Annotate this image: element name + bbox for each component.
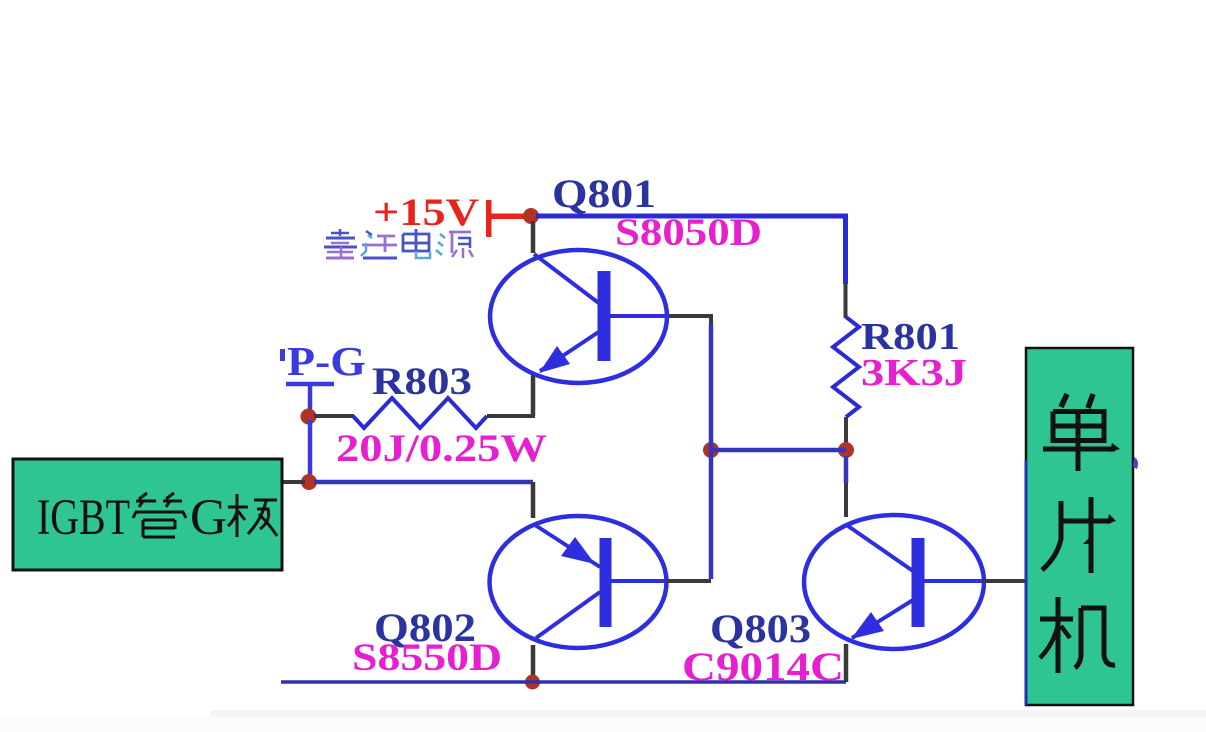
源 [436, 232, 473, 258]
node dot P-G [301, 409, 317, 425]
node dot IGBT [301, 474, 317, 490]
artifact blue tick right of MCU box [1133, 457, 1138, 469]
wire navy IGBT node to Q802 emitter [314, 480, 533, 485]
wire black R801 upper lead [844, 284, 848, 318]
近 [361, 231, 397, 258]
label 靠近电源 (drawn strokes) [324, 229, 473, 258]
Q803 emitter arrow [851, 612, 884, 639]
wire black Q802 base [666, 579, 711, 583]
node dot: +15V node [523, 208, 539, 224]
Q801 emitter arrow [539, 346, 570, 373]
wire black Q801 emitter down to R803 [531, 376, 536, 416]
transistor Q801 (S8050D NPN) [490, 250, 667, 383]
wire red from +15V to node [489, 214, 531, 220]
wire vertical bus x711 upper black part [709, 316, 713, 324]
svg-text:C9014C: C9014C [682, 644, 844, 689]
svg-text:G: G [190, 490, 227, 546]
wire black down into Q802 emitter [531, 482, 536, 518]
node dot bottom [525, 675, 540, 690]
wire blue top rail from node to R801 top [536, 216, 846, 284]
wire black R803 left lead [314, 414, 354, 418]
power tick bar [486, 200, 492, 237]
glyph 片 [1042, 497, 1111, 573]
wire black Q803 emitter down [844, 644, 849, 682]
svg-text:R803: R803 [372, 360, 472, 403]
wire bottom rail [281, 680, 846, 684]
node dot under R801 [838, 442, 854, 458]
wire black Q803 base to MCU box [982, 579, 1026, 583]
glyph 单 [1043, 394, 1115, 471]
transistor Q802 (S8550D PNP) [490, 516, 668, 648]
靠 [324, 229, 357, 258]
IGBT box [13, 459, 282, 570]
svg-text:20J/0.25W: 20J/0.25W [336, 427, 547, 470]
svg-text:+15V: +15V [373, 191, 479, 234]
wire black R803 right lead [487, 375, 533, 416]
wire black Q802 collector down [531, 645, 536, 682]
glyph 极 [228, 494, 277, 537]
test point tee [286, 384, 334, 416]
MCU box left border blue lower [1025, 460, 1028, 705]
svg-text:IGBT: IGBT [37, 490, 130, 546]
transistor Q803 (C9014C NPN) [804, 515, 984, 649]
wire vertical bus x711 from Q801 base to Q802 base [709, 324, 714, 579]
wire blue below R801 node [844, 456, 849, 483]
glyph 机 [1040, 597, 1115, 673]
Q802 emitter arrow (points to bar) [561, 537, 595, 564]
wire black Q801 base to bus [666, 314, 713, 318]
svg-text:Q801: Q801 [552, 171, 656, 216]
wire black R801 lower lead [844, 417, 848, 444]
svg-text:S8550D: S8550D [352, 636, 502, 679]
glyph 管 [133, 493, 186, 537]
wire black from IGBT box [282, 480, 305, 484]
svg-text:3K3J: 3K3J [861, 352, 967, 394]
resistor R801 zigzag [833, 317, 859, 417]
电 [403, 229, 430, 258]
MCU box 单片机 [1026, 348, 1133, 705]
node dot mid junction [703, 442, 719, 458]
wire blue P-G down to IGBT node [308, 420, 313, 482]
wire junction horizontal [711, 448, 846, 453]
faint bottom artifact band [210, 710, 1206, 717]
wire black +15V node to Q801 collector [531, 221, 536, 253]
wire black into Q803 collector [844, 483, 848, 517]
svg-text:P-G: P-G [287, 338, 366, 384]
resistor R803 zigzag [353, 398, 487, 428]
